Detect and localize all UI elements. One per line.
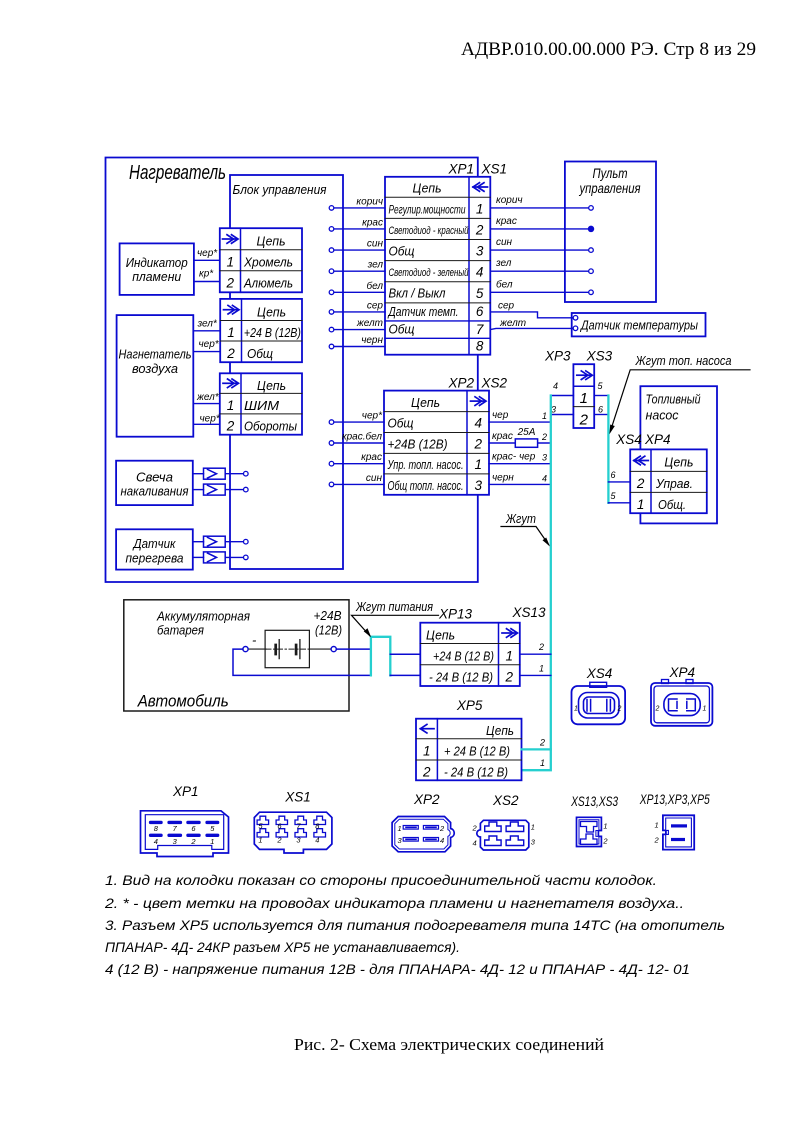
- wire XS4 pin5 stub: [608, 502, 630, 504]
- svg-text:1: 1: [227, 398, 235, 413]
- wire XP3 pin3 stub: [551, 414, 574, 416]
- svg-text:ХР13,ХР3,ХР5: ХР13,ХР3,ХР5: [639, 792, 710, 807]
- svg-text:зел: зел: [495, 258, 512, 269]
- svg-text:4: 4: [476, 265, 484, 280]
- svg-text:ХР1: ХР1: [172, 784, 199, 799]
- svg-text:XS13,XS3: XS13,XS3: [570, 794, 618, 809]
- svg-text:1: 1: [210, 837, 214, 846]
- svg-text:1: 1: [474, 457, 482, 472]
- svg-text:перегрева: перегрева: [126, 551, 184, 566]
- svg-text:чер*: чер*: [200, 414, 221, 425]
- svg-text:XS4: XS4: [615, 432, 642, 447]
- svg-text:чер*: чер*: [362, 411, 383, 422]
- svg-text:6: 6: [598, 405, 603, 415]
- wire flame indicator pin2 (кр*): [194, 281, 220, 283]
- svg-text:Датчик: Датчик: [132, 536, 177, 551]
- svg-text:2: 2: [539, 737, 545, 747]
- svg-text:Жгут топ. насоса: Жгут топ. насоса: [635, 353, 732, 368]
- svg-text:3: 3: [476, 244, 484, 259]
- svg-text:XS3: XS3: [586, 349, 613, 364]
- svg-text:4: 4: [440, 836, 444, 845]
- svg-text:насос: насос: [646, 408, 679, 423]
- wire XS1 pin5 right (бел) to control panel: [490, 290, 593, 295]
- svg-text:2: 2: [475, 223, 484, 238]
- heater enclosure box (Нагреватель): [106, 158, 478, 583]
- svg-text:Светодиод - зеленый: Светодиод - зеленый: [389, 267, 469, 279]
- svg-text:25А: 25А: [517, 427, 536, 438]
- svg-text:+24В: +24В: [314, 609, 342, 623]
- svg-text:1: 1: [703, 706, 707, 713]
- battery terminal minus: [243, 647, 248, 652]
- svg-text:3: 3: [531, 838, 536, 847]
- svg-text:XS13: XS13: [512, 605, 547, 620]
- svg-text:Цепь: Цепь: [257, 234, 286, 249]
- svg-text:Цепь: Цепь: [426, 628, 455, 643]
- wire XS13 pin2 stub to harness: [520, 653, 551, 655]
- notes text: [104, 872, 725, 977]
- wire flame indicator pin1 (чер*): [194, 259, 220, 261]
- face view icon XS1: [254, 790, 332, 854]
- svg-text:XS1: XS1: [284, 790, 311, 805]
- svg-text:син: син: [367, 239, 384, 250]
- overheat sensor inline connector 1: [193, 536, 248, 547]
- svg-text:1: 1: [398, 824, 402, 833]
- glow plug inline connector 1: [193, 468, 248, 479]
- svg-text:2: 2: [226, 419, 235, 434]
- svg-text:2: 2: [538, 642, 544, 652]
- svg-text:XS4: XS4: [586, 666, 613, 681]
- wire XP2 pin4 left (чер*): [329, 420, 384, 425]
- svg-text:3. Разъем ХР5 используется для: 3. Разъем ХР5 используется для питания п…: [105, 917, 725, 933]
- svg-text:1: 1: [637, 497, 645, 512]
- svg-text:Регулир.мощности: Регулир.мощности: [389, 202, 466, 216]
- svg-text:Цепь: Цепь: [257, 378, 286, 393]
- svg-text:5: 5: [598, 381, 604, 391]
- svg-text:2: 2: [654, 836, 660, 845]
- overheat sensor box (Датчик перегрева): [116, 529, 193, 569]
- svg-text:бел: бел: [496, 278, 513, 290]
- svg-text:воздуха: воздуха: [132, 361, 178, 376]
- svg-text:- 24 В (12 В): - 24 В (12 В): [429, 669, 493, 684]
- flame indicator box (Индикатор пламени): [120, 243, 194, 295]
- svg-text:5: 5: [476, 286, 484, 301]
- svg-text:1: 1: [226, 254, 234, 269]
- wire XP3 pin4 stub: [551, 395, 574, 397]
- wire -24 to XP13 pin2: [390, 674, 420, 676]
- svg-text:4: 4: [542, 473, 547, 483]
- svg-text:2: 2: [617, 706, 622, 713]
- wire blower pin1 (зел*): [193, 330, 220, 332]
- svg-text:1: 1: [603, 822, 607, 831]
- svg-text:4: 4: [315, 836, 319, 845]
- face view icon XS2: [472, 793, 536, 850]
- svg-text:2: 2: [190, 837, 196, 846]
- svg-text:корич: корич: [356, 196, 383, 207]
- svg-text:ХР5: ХР5: [456, 698, 483, 713]
- svg-text:4: 4: [474, 416, 482, 431]
- svg-text:3: 3: [474, 478, 482, 493]
- svg-text:крас: крас: [362, 217, 383, 228]
- wire blower PWM pin1 (жел*): [193, 403, 220, 405]
- svg-text:2: 2: [226, 346, 235, 361]
- wire blower pin2 (чер*): [193, 351, 220, 353]
- svg-text:XS1: XS1: [481, 162, 508, 177]
- connector table A (flame indicator: Цепь/Хромель/Алюмель): [220, 228, 302, 292]
- svg-text:Вкл / Выкл: Вкл / Выкл: [389, 286, 447, 301]
- wire XS13 pin1 stub to harness: [520, 674, 551, 676]
- svg-text:крас: крас: [496, 216, 517, 227]
- wire XS3 pin6 stub: [594, 414, 608, 416]
- svg-text:черн: черн: [492, 472, 514, 483]
- svg-text:пламени: пламени: [132, 269, 181, 284]
- svg-text:5: 5: [210, 824, 215, 833]
- wire XS2 pin2 right (крас) with fuse to harness: [489, 442, 551, 444]
- svg-text:1: 1: [540, 758, 545, 768]
- svg-text:АДВР.010.00.00.000 РЭ. Стр 8: АДВР.010.00.00.000 РЭ. Стр 8 из 29: [461, 39, 756, 60]
- svg-text:XS2: XS2: [492, 793, 519, 808]
- connector icon XP4: [651, 665, 712, 726]
- svg-text:+ 24 В (12 В): + 24 В (12 В): [444, 743, 510, 758]
- wire XP2 pin1 left (крас): [329, 461, 384, 466]
- control panel box (Пульт управления): [565, 162, 656, 303]
- svg-text:+24В (12В): +24В (12В): [388, 437, 448, 452]
- svg-text:6: 6: [191, 824, 196, 833]
- svg-text:Хромель: Хромель: [243, 254, 293, 269]
- svg-text:1: 1: [531, 823, 535, 832]
- wire XS1 pin7 right (желт) to temperature sensor: [490, 326, 578, 331]
- wire XP5 pin2 stub (cyan): [522, 748, 551, 750]
- wire XS1 pin2 right (крас) to control panel: [490, 226, 593, 231]
- overheat sensor inline connector 2: [193, 552, 248, 563]
- svg-text:крас: крас: [492, 431, 513, 442]
- connector icon XS4: [572, 666, 626, 724]
- svg-text:Цепь: Цепь: [413, 181, 442, 196]
- svg-text:Цепь: Цепь: [411, 395, 440, 410]
- svg-text:ХР2: ХР2: [413, 792, 440, 807]
- svg-text:-: -: [252, 633, 257, 648]
- svg-text:Автомобиль: Автомобиль: [137, 693, 229, 711]
- SEC2: [329, 349, 750, 771]
- connector table XP13/XS13: [420, 623, 520, 686]
- svg-text:4: 4: [553, 381, 558, 391]
- wire +24 to XP13 pin1: [390, 653, 420, 655]
- svg-text:8: 8: [154, 824, 159, 833]
- svg-text:1: 1: [580, 390, 588, 407]
- svg-text:- 24 В (12 В): - 24 В (12 В): [444, 764, 508, 779]
- svg-text:жел*: жел*: [196, 392, 220, 403]
- svg-text:ХР4: ХР4: [669, 665, 696, 680]
- svg-text:ХР4: ХР4: [644, 432, 671, 447]
- svg-text:Цепь: Цепь: [257, 304, 286, 319]
- harness trunk left (cyan): [522, 396, 551, 771]
- svg-text:ХР13: ХР13: [438, 607, 473, 622]
- SEC3: [124, 599, 713, 780]
- svg-text:ХР3: ХР3: [544, 349, 571, 364]
- svg-text:4 (12 В) - напряжение питания: 4 (12 В) - напряжение питания 12В - для …: [105, 961, 690, 977]
- svg-text:крас: крас: [361, 452, 382, 463]
- svg-text:кр*: кр*: [199, 269, 214, 280]
- svg-text:Нагреватель: Нагреватель: [129, 162, 226, 184]
- svg-text:1: 1: [574, 706, 578, 713]
- svg-text:2: 2: [655, 706, 660, 713]
- svg-text:желт: желт: [356, 318, 383, 329]
- svg-text:2: 2: [602, 837, 608, 846]
- wire XP2 pin3 left (син): [329, 482, 384, 487]
- svg-text:3: 3: [173, 837, 178, 846]
- svg-text:крас- чер: крас- чер: [492, 452, 536, 463]
- svg-text:Индикатор: Индикатор: [126, 255, 188, 270]
- svg-text:Общ.: Общ.: [658, 497, 686, 512]
- wire XS3 pin5 stub: [594, 395, 608, 397]
- svg-text:Общ: Общ: [389, 243, 415, 258]
- svg-text:1: 1: [476, 201, 484, 216]
- svg-text:чер*: чер*: [197, 248, 218, 259]
- svg-text:управления: управления: [579, 181, 641, 196]
- wire XP1 pin1 left (корич): [329, 206, 385, 211]
- svg-text:2: 2: [472, 824, 478, 833]
- svg-text:ППАНАР- 4Д- 24КР разъем ХР5 не: ППАНАР- 4Д- 24КР разъем ХР5 не устанавли…: [105, 939, 460, 955]
- glow plug inline connector 2: [193, 484, 248, 495]
- svg-text:7: 7: [173, 824, 178, 833]
- svg-text:1: 1: [655, 821, 659, 830]
- face view icon XP1: [141, 784, 229, 857]
- svg-text:Общ: Общ: [389, 321, 415, 336]
- svg-text:крас.бел: крас.бел: [342, 431, 382, 443]
- wire XS1 pin6 right (сер) to temperature sensor: [490, 312, 578, 320]
- wire XP1 pin6 left (сер): [329, 310, 385, 315]
- svg-text:Датчик темп.: Датчик темп.: [387, 304, 459, 319]
- svg-text:4: 4: [154, 837, 158, 846]
- svg-text:желт: желт: [499, 318, 526, 329]
- svg-text:сер: сер: [498, 300, 515, 311]
- svg-text:Цепь: Цепь: [486, 723, 514, 738]
- svg-text:(12В): (12В): [315, 624, 342, 638]
- wire XP1 pin7 left (желт): [329, 327, 385, 332]
- svg-text:Нагнетатель: Нагнетатель: [119, 347, 192, 362]
- svg-text:Аккумуляторная: Аккумуляторная: [156, 610, 250, 624]
- wire XP1 pin5 left (бел): [329, 290, 385, 295]
- svg-text:син: син: [496, 237, 513, 248]
- svg-text:1: 1: [227, 325, 235, 340]
- svg-text:Жгут питания: Жгут питания: [355, 599, 433, 614]
- svg-text:зел: зел: [367, 260, 384, 271]
- svg-text:Свеча: Свеча: [136, 470, 173, 485]
- svg-text:чер: чер: [492, 410, 509, 421]
- svg-text:2: 2: [439, 824, 445, 833]
- svg-text:1. Вид на колодки показан со с: 1. Вид на колодки показан со стороны при…: [105, 872, 657, 888]
- svg-text:2: 2: [636, 476, 645, 491]
- svg-text:корич: корич: [496, 195, 523, 206]
- svg-text:Пульт: Пульт: [593, 166, 628, 181]
- glow plug box (Свеча накаливания): [116, 461, 193, 505]
- wire XS1 pin1 right (корич) to control panel: [490, 206, 593, 211]
- battery GB (Аккумуляторная батарея): [248, 630, 331, 667]
- connector table XP5: [416, 719, 522, 781]
- svg-text:черн: черн: [361, 335, 383, 346]
- connector table C (blower control: Цепь/ШИМ/Обороты): [220, 373, 302, 434]
- wire battery minus loop to power harness: [233, 649, 371, 675]
- svg-text:чер*: чер*: [199, 339, 220, 350]
- svg-text:6: 6: [476, 304, 484, 319]
- wire XP2 pin2 left (крас.бел): [329, 441, 384, 446]
- svg-text:Датчик температуры: Датчик температуры: [579, 318, 698, 333]
- wire XP1 pin8 left (черн): [329, 344, 385, 349]
- wire XP1 pin2 left (крас): [329, 227, 385, 232]
- svg-text:2: 2: [276, 836, 282, 845]
- svg-text:Общ: Общ: [388, 416, 414, 431]
- control unit box (Блок управления): [230, 175, 343, 569]
- svg-text:Общ: Общ: [247, 346, 273, 361]
- svg-text:батарея: батарея: [157, 624, 204, 638]
- svg-text:6: 6: [611, 470, 616, 480]
- svg-text:8: 8: [476, 339, 484, 354]
- svg-text:7: 7: [476, 322, 484, 337]
- svg-text:Блок управления: Блок управления: [233, 182, 327, 197]
- svg-text:зел*: зел*: [197, 319, 218, 330]
- svg-text:2: 2: [504, 669, 513, 684]
- svg-text:Топливный: Топливный: [646, 392, 701, 407]
- svg-text:1: 1: [423, 743, 431, 758]
- svg-text:син: син: [366, 473, 383, 484]
- svg-text:+24 В (12В): +24 В (12В): [244, 325, 301, 340]
- battery terminal plus: [331, 647, 336, 652]
- svg-text:2: 2: [225, 276, 234, 291]
- svg-text:2: 2: [579, 412, 589, 429]
- fuel pump box (Топливный насос): [640, 386, 717, 523]
- wire XP1 pin4 left (зел): [329, 269, 385, 274]
- power harness symbol (cyan jog): [371, 637, 390, 676]
- svg-text:4: 4: [473, 839, 477, 848]
- svg-text:Жгут: Жгут: [505, 511, 536, 526]
- vehicle box (Автомобиль): [124, 600, 349, 711]
- wire XS2 pin3 right (крас-чер) to harness: [489, 463, 551, 465]
- harness trunk right (cyan): [607, 396, 609, 503]
- svg-text:Цепь: Цепь: [664, 455, 693, 470]
- svg-text:2: 2: [541, 432, 547, 442]
- svg-text:2: 2: [473, 437, 482, 452]
- wire XS2 pin4 right (черн) to harness: [489, 483, 551, 485]
- face view icon XP2: [392, 792, 454, 852]
- svg-text:накаливания: накаливания: [121, 484, 189, 499]
- svg-text:3: 3: [542, 453, 547, 463]
- wire battery plus to power harness: [336, 648, 371, 650]
- svg-text:1: 1: [505, 648, 513, 663]
- air blower box (Нагнетатель воздуха): [117, 315, 194, 437]
- svg-text:Алюмель: Алюмель: [243, 276, 293, 291]
- wire XS1 pin4 right (зел) to control panel: [490, 269, 593, 274]
- svg-text:+24 В (12 В): +24 В (12 В): [433, 648, 494, 663]
- wire XS1 pin3 right (син) to control panel: [490, 248, 593, 253]
- connector table XP3/XS3: [573, 364, 594, 428]
- svg-text:Упр. топл. насос.: Упр. топл. насос.: [387, 457, 464, 472]
- fuse 25A: [515, 439, 537, 447]
- svg-text:2: 2: [422, 764, 431, 779]
- face view icon XP13,XP3,XP5: [639, 792, 710, 850]
- svg-text:3: 3: [398, 836, 403, 845]
- svg-text:ХР1: ХР1: [447, 162, 474, 177]
- face view icon XS13,XS3: [570, 794, 618, 847]
- svg-text:бел: бел: [367, 280, 384, 292]
- SEC1: [193, 162, 706, 563]
- svg-text:Управ.: Управ.: [655, 476, 693, 491]
- svg-text:ХР2: ХР2: [447, 376, 474, 391]
- svg-text:2. * - цвет метки на проводах: 2. * - цвет метки на проводах индикатора…: [104, 895, 684, 911]
- wire XS4 pin6 stub: [608, 481, 630, 483]
- connector table XP1/XS1: [385, 177, 490, 355]
- svg-text:Рис. 2- Схема электрических со: Рис. 2- Схема электрических соединений: [294, 1035, 604, 1054]
- svg-text:сер: сер: [367, 300, 384, 311]
- svg-text:Обороты: Обороты: [244, 419, 297, 434]
- wire XP1 pin3 left (син): [329, 248, 385, 253]
- temperature sensor box (Датчик температуры): [572, 313, 706, 336]
- wire XS2 pin1 right (чер) to harness: [489, 421, 551, 423]
- svg-text:1: 1: [258, 836, 262, 845]
- svg-text:ШИМ: ШИМ: [244, 398, 279, 413]
- svg-text:1: 1: [539, 663, 544, 673]
- svg-text:XS2: XS2: [481, 376, 508, 391]
- connector table XP2/XS2: [384, 391, 489, 495]
- svg-text:Светодиод - красный: Светодиод - красный: [389, 225, 469, 237]
- wire blower PWM pin2 (чер*): [193, 423, 220, 425]
- svg-text:Общ топл. насос.: Общ топл. насос.: [388, 478, 464, 493]
- svg-text:5: 5: [611, 491, 617, 501]
- svg-text:1: 1: [542, 411, 547, 421]
- connector table XS4/XP4: [630, 449, 707, 513]
- connector table B (blower power: Цепь/+24 В (12В)/Общ): [220, 299, 302, 362]
- SEC4: [104, 784, 725, 1054]
